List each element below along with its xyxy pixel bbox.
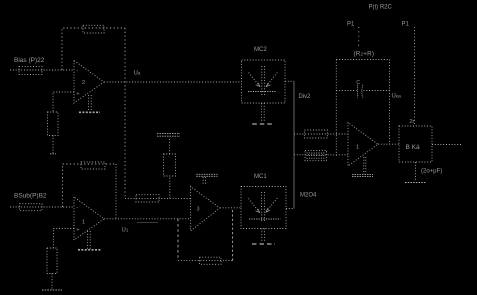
op-amp U3 triangle (191, 187, 220, 232)
ground bar U2 (78, 249, 101, 251)
wire U4 feedback cap path (336, 90, 356, 92)
svg-text:P1: P1 (402, 22, 410, 28)
resistor R6 to ground of U2 (47, 248, 57, 274)
svg-text:Ua: Ua (134, 71, 141, 77)
ground tick below R3 (50, 153, 56, 155)
resistor R9 feedback of U3 (200, 257, 222, 264)
resistor R7 series to U3 (136, 195, 159, 202)
MC2 inner left arrow (249, 73, 260, 87)
wire MC1 right pin (286, 208, 294, 210)
wire node to U3 inverting input (125, 197, 191, 199)
wire U4 output (378, 143, 399, 145)
faint solid segment (137, 222, 158, 224)
wire U1 noninverting input (53, 92, 74, 112)
ground bar MC2 (252, 123, 274, 125)
svg-text:M2O4: M2O4 (300, 193, 317, 199)
block MC2 box (242, 60, 286, 103)
wire below R6 (51, 274, 53, 289)
svg-text:Div2: Div2 (299, 94, 312, 100)
svg-text:MC2: MC2 (254, 47, 267, 53)
svg-text:2r: 2r (410, 119, 415, 125)
svg-text:MC1: MC1 (254, 174, 267, 180)
wire offset branch vertical (169, 176, 171, 198)
ground bar below R6 (42, 289, 62, 291)
ground stub MC1 (261, 229, 263, 243)
svg-text:-: - (77, 205, 79, 211)
wire P1 wiper dotted (358, 27, 360, 49)
wire feedback bottom of U3 (178, 260, 233, 262)
wire U3 plus branch down (177, 219, 179, 261)
svg-text:(R2+R): (R2+R) (354, 51, 375, 58)
wire above R8 (169, 137, 171, 154)
op-amp U1 feedback top wire (62, 28, 125, 70)
resistor R5 feedback of U2 (81, 162, 105, 169)
ground stub U4 (363, 157, 365, 174)
op-amp U4 triangle (348, 123, 378, 167)
wire U2 inverting input (10, 206, 74, 208)
svg-text:B Ká: B Ká (406, 144, 420, 151)
svg-text:(2o+μF): (2o+μF) (421, 169, 442, 175)
block MC1 box (241, 187, 286, 229)
wire output right (432, 144, 462, 146)
resistor R8 offset branch (164, 154, 176, 176)
wire MC2 right pin (285, 80, 294, 82)
wire U2 output to U3 noninverting (104, 218, 191, 220)
wire U2 noninverting input (53, 229, 74, 249)
wire U1 output to MC2 (104, 81, 242, 83)
wire P1 right vertical dotted (414, 27, 416, 126)
svg-text:Bias (P)22: Bias (P)22 (14, 57, 45, 64)
wire U3 output to MC1 (220, 207, 241, 209)
ground stub U1 (88, 95, 90, 111)
wire stub below box (415, 162, 417, 181)
wire middle vertical bus (293, 81, 295, 208)
capacitor C plates (357, 85, 359, 98)
wire below R3 (52, 136, 54, 154)
ground bar below box (405, 182, 426, 184)
wire feedback right vertical node to U3 input (124, 28, 126, 198)
MC1 inner bar (249, 218, 281, 220)
wire U4 feedback left vertical (335, 60, 337, 157)
wire U4 feedback right vertical (389, 60, 391, 145)
terminal T-bar above R8 (157, 133, 180, 135)
svg-text:C: C (356, 80, 360, 86)
ground bar U4 (352, 174, 373, 176)
ground bar MC1 (252, 243, 275, 245)
MC1 inner right arrow (266, 198, 277, 212)
svg-text:+: + (77, 92, 80, 98)
op-amp U1 triangle (74, 61, 104, 104)
wire feedback right vertical of U2 (115, 164, 117, 219)
resistor R10 (305, 130, 328, 138)
op-amp U2 triangle (74, 197, 104, 240)
ground bar above U3 (196, 173, 217, 175)
MC1 inner symbol center (261, 192, 263, 222)
svg-text:BSub(P)B2: BSub(P)B2 (14, 193, 47, 200)
svg-text:P(t) R2C: P(t) R2C (369, 5, 393, 11)
wire U4 feedback top (R path) (336, 59, 389, 61)
MC1 inner left arrow (248, 199, 259, 213)
MC2 inner symbol center (261, 66, 263, 97)
svg-text:2: 2 (82, 80, 85, 86)
wire U4 inverting input (294, 133, 348, 135)
svg-text:1: 1 (356, 145, 359, 151)
svg-text:3: 3 (197, 207, 200, 213)
ground stub above U3 (202, 177, 204, 184)
resistor R11 hatched (305, 150, 327, 160)
wire feedback right vertical of U3 (232, 208, 234, 261)
svg-text:U1: U1 (122, 228, 129, 234)
wire U1 inverting input (10, 69, 74, 71)
op-amp U2 feedback top wire (63, 164, 117, 207)
block R2b box (399, 126, 432, 162)
svg-text:+: + (77, 228, 80, 234)
resistor R3 to ground of U1 (48, 112, 59, 136)
svg-text:P1: P1 (347, 22, 355, 28)
resistor R2 feedback of U1 (83, 25, 104, 33)
svg-text:Uea: Uea (392, 94, 402, 100)
resistor R1 input of U1 (19, 66, 42, 74)
MC2 inner right arrow (267, 73, 278, 87)
ground stub U2 (87, 231, 89, 249)
ground stub MC2 (260, 103, 262, 123)
wire U4 noninverting input (294, 154, 348, 156)
svg-text:1: 1 (82, 220, 85, 226)
resistor R4 input of U2 (20, 204, 43, 211)
ground bar U1 (79, 111, 100, 113)
svg-text:-: - (77, 68, 79, 74)
MC2 inner bar (248, 91, 277, 93)
